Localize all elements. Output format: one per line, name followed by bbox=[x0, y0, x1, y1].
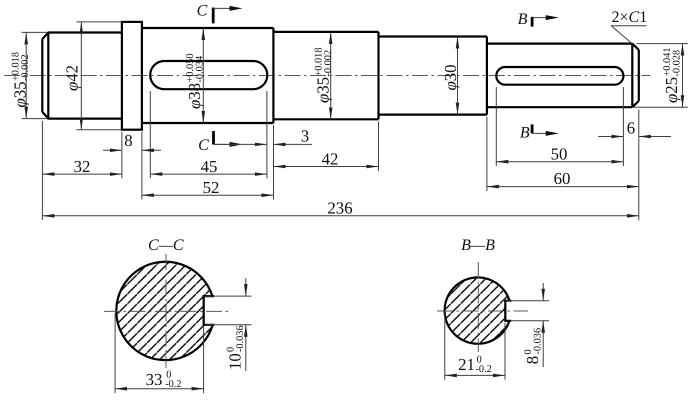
svg-text:45: 45 bbox=[201, 157, 218, 176]
shaft section phi25 with chamfered right end bbox=[487, 44, 639, 108]
svg-text:-0.002: -0.002 bbox=[323, 50, 334, 77]
dimension 6 bbox=[598, 119, 671, 138]
dimension 236 overall bbox=[42, 198, 638, 217]
dimension phi38 bbox=[185, 28, 206, 123]
section cut mark B top bbox=[518, 11, 546, 28]
svg-text:-0.2: -0.2 bbox=[476, 364, 492, 375]
dimension 21 bbox=[444, 313, 446, 380]
chamfer label 2xC1 with leader bbox=[611, 9, 647, 44]
svg-text:236: 236 bbox=[327, 198, 352, 217]
svg-text:33: 33 bbox=[146, 370, 163, 389]
svg-text:φ25: φ25 bbox=[662, 77, 681, 103]
extension line collar right bbox=[141, 132, 143, 200]
svg-text:-0.028: -0.028 bbox=[672, 50, 683, 77]
hatching C-C bbox=[116, 262, 212, 360]
keyway slot on phi38 section bbox=[150, 61, 267, 89]
svg-text:21: 21 bbox=[458, 355, 475, 374]
svg-text:52: 52 bbox=[203, 178, 220, 197]
dimension phi30 bbox=[441, 37, 460, 115]
keyway notch B-B bbox=[505, 301, 511, 321]
svg-text:2×C1: 2×C1 bbox=[612, 9, 648, 26]
svg-text:50: 50 bbox=[551, 144, 568, 163]
centerline horizontal C-C bbox=[104, 310, 230, 312]
extension line collar left bbox=[121, 132, 123, 178]
section view B-B bbox=[437, 237, 549, 380]
svg-text:-0.2: -0.2 bbox=[165, 379, 181, 390]
shaft section phi35 middle bbox=[273, 32, 378, 119]
section cut mark C bottom bbox=[198, 131, 229, 154]
dimension 8 collar width bbox=[103, 131, 161, 150]
svg-text:φ30: φ30 bbox=[441, 64, 460, 90]
svg-text:60: 60 bbox=[554, 169, 571, 188]
dimension 45 keyway1 bbox=[150, 157, 267, 176]
circle outline B-B bbox=[445, 277, 510, 343]
keyway notch C-C bbox=[204, 296, 215, 325]
svg-text:-0.036: -0.036 bbox=[532, 328, 543, 355]
svg-text:3: 3 bbox=[301, 126, 309, 145]
extension line keyway2 right bbox=[622, 87, 624, 166]
svg-text:-0.002: -0.002 bbox=[20, 54, 31, 81]
svg-text:8: 8 bbox=[124, 131, 132, 150]
extension line keyway1 right bbox=[266, 91, 268, 178]
extension line shaft right end bbox=[638, 110, 640, 221]
circle outline C-C bbox=[116, 262, 212, 360]
svg-text:8: 8 bbox=[523, 356, 542, 364]
svg-text:φ35: φ35 bbox=[314, 77, 333, 103]
svg-text:C: C bbox=[197, 3, 208, 20]
svg-text:-0.036: -0.036 bbox=[235, 325, 246, 352]
extension line left end bbox=[41, 121, 43, 220]
shaft section phi30 bbox=[379, 37, 487, 115]
svg-text:B: B bbox=[520, 124, 530, 141]
svg-text:42: 42 bbox=[322, 149, 339, 168]
dimension phi35 middle bbox=[314, 32, 335, 119]
dimension 33 bbox=[114, 314, 116, 394]
dimension 8 keyway width bbox=[506, 300, 549, 302]
svg-text:B—B: B—B bbox=[461, 237, 495, 254]
svg-text:C—C: C—C bbox=[148, 237, 184, 254]
hatching B-B bbox=[445, 277, 510, 343]
centerline vertical B-B bbox=[477, 262, 479, 352]
svg-text:32: 32 bbox=[74, 157, 91, 176]
extension line phi30 right edge bbox=[486, 117, 488, 191]
extension line keyway1 left bbox=[149, 91, 151, 178]
centerline horizontal B-B bbox=[437, 310, 528, 312]
section view C-C bbox=[104, 237, 252, 393]
dimension phi42 bbox=[63, 22, 122, 130]
dimension 60 bbox=[487, 169, 639, 188]
centerline vertical C-C bbox=[165, 254, 167, 368]
shaft collar phi42 bbox=[122, 22, 142, 130]
shaft section phi35 left with chamfered end bbox=[42, 33, 122, 119]
svg-text:φ42: φ42 bbox=[63, 65, 82, 91]
svg-text:C: C bbox=[198, 137, 209, 154]
dimension 10 keyway width bbox=[206, 295, 252, 297]
svg-text:6: 6 bbox=[627, 119, 635, 138]
dimension 3 bbox=[214, 126, 312, 145]
dimension 42 bbox=[274, 149, 379, 168]
main axis centerline bbox=[4, 75, 651, 77]
svg-text:φ38: φ38 bbox=[185, 83, 204, 109]
svg-text:-0.034: -0.034 bbox=[195, 56, 206, 83]
keyway slot on phi25 section bbox=[496, 67, 623, 85]
dimension 50 keyway2 bbox=[496, 144, 623, 163]
section cut mark C top bbox=[197, 3, 230, 24]
extension line phi38 right edge bbox=[273, 125, 275, 199]
dimension 52 bbox=[142, 178, 274, 197]
dimension phi35 left bbox=[11, 32, 47, 118]
svg-text:φ35: φ35 bbox=[11, 81, 30, 107]
extension line keyway2 left bbox=[495, 87, 497, 166]
dimension 32 bbox=[42, 157, 122, 176]
section cut mark B bottom bbox=[520, 124, 546, 141]
dimension phi25 right bbox=[634, 44, 688, 108]
svg-text:B: B bbox=[518, 11, 528, 28]
shaft section phi38 bbox=[142, 28, 274, 123]
extension line phi35mid right edge bbox=[378, 122, 380, 172]
svg-text:10: 10 bbox=[226, 353, 245, 370]
